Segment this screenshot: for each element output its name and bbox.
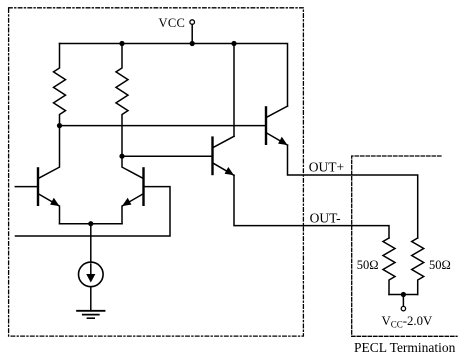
svg-text:VCC: VCC: [159, 16, 186, 30]
junction dot termination: [401, 292, 406, 297]
wire VCC top bus: [60, 44, 288, 107]
VCC terminal: [190, 20, 195, 25]
wire OUT- net: [234, 175, 389, 238]
svg-text:50Ω: 50Ω: [357, 258, 379, 272]
junction dot node B: [119, 154, 124, 159]
wire Q2 base input: [16, 187, 171, 236]
resistor RT2 50ohm right: [412, 238, 424, 295]
wire tail node to current source: [90, 224, 92, 262]
junction dot R2 top on bus: [119, 41, 124, 46]
wire Q1 base input: [15, 186, 38, 188]
junction dot node A: [57, 123, 62, 128]
current source I1: [79, 262, 104, 287]
resistor R2: [116, 44, 128, 157]
wire emitter join: [60, 223, 123, 225]
transistor Q4: [266, 106, 288, 145]
wire node A to Q4 base: [60, 125, 267, 127]
wire node B to Q3 base: [122, 155, 213, 157]
wire current source to ground: [90, 287, 92, 311]
svg-text:PECL Termination: PECL Termination: [354, 340, 456, 355]
junction dot Q3 collector on bus: [231, 41, 236, 46]
VCC-2.0V terminal: [401, 306, 405, 310]
svg-text:50Ω: 50Ω: [429, 258, 451, 272]
transistor Q2: [122, 156, 144, 224]
PECL termination boundary box: [352, 156, 457, 336]
transistor Q1: [38, 126, 60, 224]
transistor Q3: [213, 136, 235, 175]
junction dot VCC on bus: [190, 41, 195, 46]
junction dot tail node: [88, 221, 93, 226]
svg-text:VCC-2.0V: VCC-2.0V: [382, 314, 434, 330]
wire termination node to terminal: [402, 295, 404, 307]
resistor R1: [54, 44, 66, 127]
svg-text:OUT-: OUT-: [310, 211, 342, 226]
wire OUT+ net: [288, 145, 418, 238]
wire Q3 collector to bus: [233, 44, 235, 137]
ground: [77, 311, 104, 318]
wire termination join: [389, 294, 418, 296]
resistor RT1 50ohm left: [383, 238, 395, 295]
wire VCC terminal to bus: [191, 24, 193, 43]
dashed IC boundary box: [9, 8, 304, 336]
svg-text:OUT+: OUT+: [309, 159, 344, 174]
